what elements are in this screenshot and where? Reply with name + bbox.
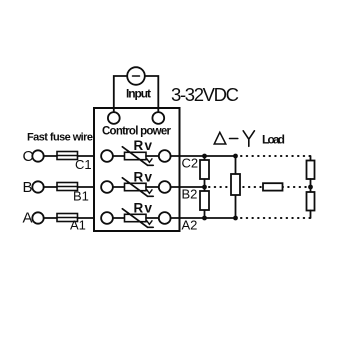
svg-text:Rv: Rv xyxy=(134,170,153,185)
SSR pole B: right terminal xyxy=(159,181,171,193)
junction dot A xyxy=(202,216,207,221)
svg-text:A2: A2 xyxy=(182,218,198,233)
varistor Rv (A) xyxy=(125,214,147,221)
wire to box edge xyxy=(171,155,180,157)
terminal B xyxy=(32,181,43,192)
svg-text:Control power: Control power xyxy=(102,126,172,138)
wire xyxy=(146,186,159,188)
Y branch C lead xyxy=(310,156,312,161)
SSR pole A: right terminal xyxy=(159,212,171,224)
dotted wire C to Y xyxy=(241,155,311,157)
dotted B feed xyxy=(209,186,263,188)
wire fuse to box B xyxy=(78,186,95,188)
SSR pole A: left terminal xyxy=(101,212,113,224)
svg-text:Rv: Rv xyxy=(134,138,153,153)
wire fuse to box A xyxy=(78,217,95,219)
Y branch A lead xyxy=(310,211,312,219)
wire xyxy=(146,155,159,157)
terminal top-right xyxy=(152,112,164,124)
wire fuse to box C xyxy=(78,155,95,157)
svg-text:C1: C1 xyxy=(75,157,92,172)
svg-text:Rv: Rv xyxy=(134,201,153,216)
wire xyxy=(113,155,125,157)
terminal top-left xyxy=(108,112,120,124)
terminal A xyxy=(32,212,43,223)
Y resistor A vertical xyxy=(307,192,315,211)
delta resistor C-B xyxy=(200,160,209,179)
wire C to fuse xyxy=(44,155,57,157)
varistor Rv (B) xyxy=(125,183,147,190)
fuse B1 xyxy=(57,183,78,191)
control power box xyxy=(94,108,180,231)
wire xyxy=(146,217,159,219)
varistor Rv (C) xyxy=(125,152,147,159)
input source circle xyxy=(127,67,145,85)
junction dot C2 top xyxy=(233,154,238,159)
wire A to fuse xyxy=(44,217,57,219)
wire B to fuse xyxy=(44,186,57,188)
Y symbol xyxy=(243,131,254,147)
wire input bracket right xyxy=(145,76,159,112)
delta symbol xyxy=(214,132,226,144)
svg-text:Load: Load xyxy=(262,133,285,147)
SSR pole C: right terminal xyxy=(159,150,171,162)
svg-text:A1: A1 xyxy=(70,218,86,233)
delta branch wire vertical 2 xyxy=(235,156,237,218)
fuse A1 xyxy=(57,214,78,222)
wire xyxy=(113,217,125,219)
dash xyxy=(230,138,238,140)
wire B2 stub xyxy=(180,186,205,188)
wire input bracket left xyxy=(114,76,128,112)
Y resistor B horizontal xyxy=(263,183,283,190)
svg-text:B2: B2 xyxy=(182,187,198,202)
svg-text:Input: Input xyxy=(126,87,151,101)
junction dot A2 bottom xyxy=(233,216,238,221)
svg-text:3-32VDC: 3-32VDC xyxy=(171,84,239,105)
wire xyxy=(113,186,125,188)
Y resistor C vertical xyxy=(307,161,315,180)
delta resistor C-A xyxy=(231,174,240,195)
SSR pole C: left terminal xyxy=(101,150,113,162)
terminal C xyxy=(32,150,43,161)
dotted wire A to Y xyxy=(241,217,311,219)
svg-text:A: A xyxy=(23,210,33,227)
svg-text:B1: B1 xyxy=(73,189,89,204)
svg-text:B: B xyxy=(23,179,33,196)
wire to box edge xyxy=(171,217,180,219)
Y star leads xyxy=(310,179,312,192)
star point dot xyxy=(308,185,313,190)
junction dot B xyxy=(202,185,207,190)
wire C2 bus xyxy=(180,155,236,157)
wire to box edge xyxy=(171,186,180,188)
wire A2 bus xyxy=(180,217,236,219)
SSR pole B: left terminal xyxy=(101,181,113,193)
fuse C1 xyxy=(57,152,78,160)
dotted wire B to Y xyxy=(283,186,309,188)
junction dot C xyxy=(202,154,207,159)
delta resistor B-A xyxy=(200,191,209,210)
delta branch wire C-A vertical 1 xyxy=(204,156,206,218)
svg-text:C2: C2 xyxy=(182,156,199,171)
svg-text:Fast fuse wire: Fast fuse wire xyxy=(27,132,93,144)
